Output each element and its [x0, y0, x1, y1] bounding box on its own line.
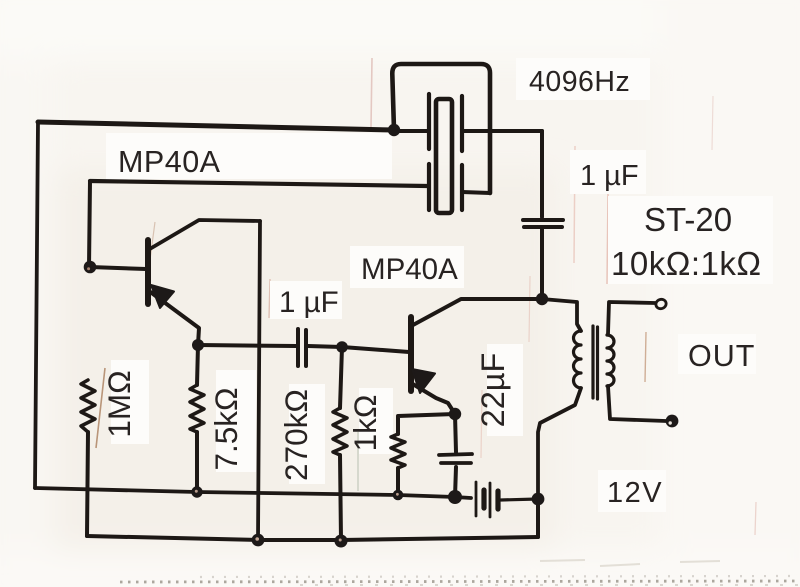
node: 1k bottom on rail — [393, 490, 404, 501]
wire: 7.5k bottom lead — [195, 432, 199, 492]
transformer T1 secondary winding — [607, 335, 614, 386]
wire: Q2 base wire — [342, 347, 409, 352]
resistor R1 1M zigzag — [81, 380, 95, 432]
capacitor C2 1uF plates — [523, 220, 563, 227]
resistor R3 270k zigzag — [333, 408, 347, 455]
wire: secondary bottom lead to OUT — [608, 386, 666, 421]
wire: C2 bottom lead — [540, 229, 544, 299]
wire: crystal upper left stub — [394, 129, 428, 133]
svg-text:4096Hz: 4096Hz — [529, 66, 630, 98]
svg-text:1MΩ: 1MΩ — [101, 370, 137, 437]
transformer T1 primary winding — [574, 331, 582, 388]
wire: lower emitter rail — [87, 536, 538, 540]
wire: 270k bottom lead — [340, 455, 341, 540]
svg-text:12V: 12V — [607, 477, 663, 509]
capacitor C3 22uF plates — [439, 454, 472, 463]
svg-text:MP40A: MP40A — [118, 145, 221, 179]
wire: node to C1 left plate — [198, 345, 296, 346]
crystal X1 right plate — [460, 96, 464, 210]
wire: C1 right plate to node — [308, 346, 342, 347]
wire: upper bottom rail (bias rail) — [35, 488, 471, 498]
transistor Q2 base bar — [408, 317, 414, 391]
svg-text:10kΩ:1kΩ: 10kΩ:1kΩ — [611, 245, 762, 282]
wire: secondary top lead to OUT — [608, 302, 655, 334]
wire: top feedback wire — [38, 122, 394, 130]
resistor R2 7.5k zigzag — [190, 385, 204, 432]
crystal X1 body — [436, 99, 452, 213]
wire: Q2 emitter to node — [411, 383, 455, 414]
transistor Q1 emitter arrow — [151, 285, 174, 308]
wire: Q1 emitter to node — [149, 291, 199, 345]
svg-text:ST-20: ST-20 — [644, 201, 732, 238]
wire: battery right to node — [501, 499, 538, 500]
node: battery plus node — [532, 493, 545, 506]
wire: crystal cross-connect box — [392, 64, 490, 193]
wire: 7.5k top lead — [197, 345, 198, 385]
crystal X1 left plate — [427, 94, 431, 210]
svg-text:1 µF: 1 µF — [580, 160, 639, 192]
node: crystal top-left junction — [388, 124, 400, 136]
wire: 1k bottom lead — [396, 468, 400, 495]
node: emitter line on lower rail — [252, 534, 265, 547]
transistor Q2 emitter arrow — [412, 369, 435, 393]
transformer T1 core — [593, 326, 598, 399]
wire: C2 top lead — [540, 131, 544, 217]
wire: long vertical to lower rail — [258, 221, 260, 540]
node: C1 / 270k / Q2 base — [336, 341, 348, 353]
svg-text:1kΩ: 1kΩ — [347, 395, 383, 452]
wire: node to transformer primary top — [542, 299, 581, 331]
wire: lower rail up to battery node — [536, 499, 540, 537]
scan streak artifacts — [371, 58, 372, 128]
node: Q1 emitter / C1 / 7.5k — [192, 339, 204, 351]
wire: 22uF bottom lead — [455, 467, 456, 497]
wire: 22uF top lead — [455, 414, 456, 452]
svg-text:22µF: 22µF — [475, 353, 511, 428]
resistor R4 1k zigzag — [391, 434, 405, 468]
wire: emitter node to 1k — [398, 414, 455, 434]
wire: 1M bottom to lower rail corner — [87, 432, 88, 536]
capacitor C1 1uF plates — [298, 329, 306, 366]
node: Q2 collector / C2 / primary — [536, 293, 548, 305]
svg-text:MP40A: MP40A — [361, 253, 458, 286]
wire: 270k top lead — [340, 347, 342, 408]
wire: transformer primary bottom to battery node — [538, 388, 581, 499]
transistor Q1 base bar — [145, 240, 151, 304]
terminal: OUT top (open) — [655, 298, 668, 310]
node: Q2 emitter / 1k / 22uF — [449, 408, 461, 420]
wire: Q2 collector to node — [413, 299, 542, 325]
svg-text:7.5kΩ: 7.5kΩ — [208, 387, 244, 470]
wire: Q1 collector run — [148, 220, 260, 250]
wire: base drop vertical — [89, 181, 90, 267]
wire: crystal lower-left rail — [90, 181, 427, 186]
svg-text:270kΩ: 270kΩ — [278, 389, 314, 481]
svg-text:OUT: OUT — [688, 339, 755, 373]
terminal: OUT bottom — [666, 415, 679, 428]
bottom scan speckle band — [120, 581, 798, 582]
battery B1 plates — [476, 482, 490, 517]
node: 270k bottom on lower rail — [335, 535, 348, 548]
node: Q1 base — [84, 261, 97, 274]
wire: crystal upper right to C2 — [462, 129, 542, 133]
node: 22uF bottom on rail — [448, 490, 462, 504]
wire: crystal lower right stub — [462, 192, 490, 193]
wire: Q1 base wire — [90, 267, 146, 269]
wire: left outer vertical — [35, 122, 38, 488]
svg-text:1 µF: 1 µF — [279, 286, 339, 319]
node: 7.5k bottom on rail — [191, 486, 202, 497]
